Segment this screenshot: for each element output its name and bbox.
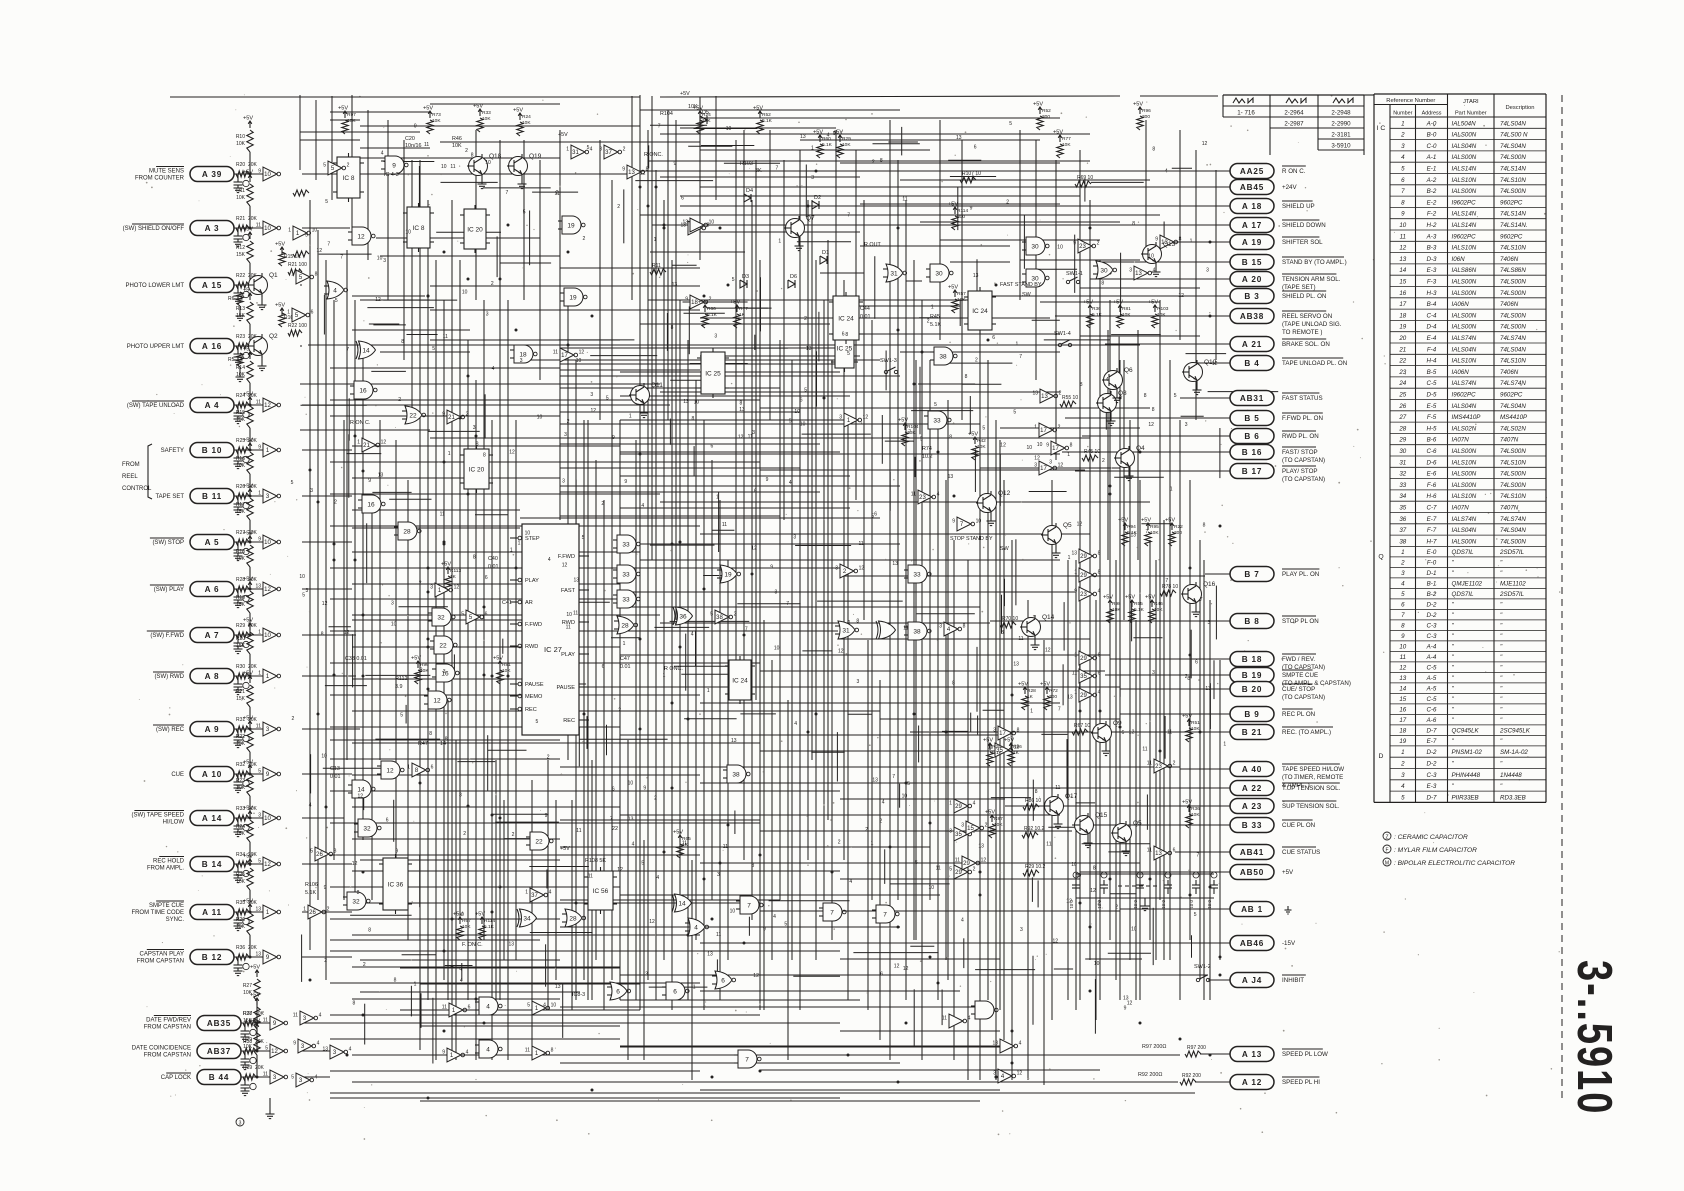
label B20 — [1282, 684, 1325, 701]
wire — [352, 1054, 1180, 1056]
gate 28 — [562, 909, 586, 927]
wire — [647, 130, 649, 980]
gate 9 — [381, 156, 408, 174]
wire — [302, 173, 630, 175]
junction — [507, 675, 510, 678]
connector B5 — [1230, 411, 1274, 426]
svg-text:10: 10 — [264, 226, 271, 232]
gate 29 — [1071, 549, 1100, 563]
svg-text:9602PC: 9602PC — [1500, 199, 1523, 206]
svg-text:23: 23 — [1155, 764, 1162, 770]
gate 30 — [1022, 237, 1049, 255]
svg-text:29: 29 — [1080, 573, 1087, 579]
svg-text:RD3.3EB: RD3.3EB — [1500, 794, 1526, 801]
scan noise — [139, 94, 1561, 1139]
ground — [795, 246, 804, 251]
junction — [929, 822, 932, 825]
svg-text:4: 4 — [694, 925, 698, 932]
svg-text:5: 5 — [915, 860, 918, 866]
wire — [620, 1045, 1000, 1047]
svg-text:+24V: +24V — [1282, 184, 1297, 191]
svg-text:7: 7 — [747, 903, 751, 910]
svg-text:3: 3 — [1206, 268, 1209, 274]
svg-text:R20: R20 — [236, 636, 245, 642]
svg-text:19: 19 — [1399, 738, 1406, 745]
svg-text:30: 30 — [1031, 244, 1039, 251]
wire — [389, 498, 431, 500]
gate 1 — [525, 1046, 554, 1060]
svg-text:4: 4 — [773, 914, 776, 920]
wire — [234, 541, 263, 543]
junction — [663, 227, 666, 230]
svg-text:10: 10 — [1037, 442, 1043, 448]
svg-text:1: 1 — [693, 984, 696, 990]
svg-text:15K: 15K — [236, 602, 246, 608]
svg-text:F.FWD: F.FWD — [525, 622, 542, 628]
junction — [575, 902, 578, 905]
svg-text:1: 1 — [629, 413, 632, 419]
svg-text:A-5: A-5 — [1426, 685, 1437, 692]
svg-text:+5V: +5V — [968, 432, 978, 438]
svg-text:21: 21 — [363, 443, 370, 449]
svg-text:32: 32 — [1399, 471, 1406, 478]
wire — [436, 231, 501, 233]
svg-text:0.01: 0.01 — [1161, 900, 1166, 909]
junction — [591, 1089, 594, 1092]
svg-text:R18: R18 — [236, 549, 245, 555]
gate 28 — [394, 522, 421, 540]
wire — [348, 398, 350, 440]
wire — [969, 396, 971, 434]
svg-text:74LS14N: 74LS14N — [1500, 166, 1526, 173]
power +5V — [250, 1019, 260, 1032]
gate 37 — [599, 145, 625, 159]
connector A11 — [190, 905, 234, 920]
junction — [703, 588, 706, 591]
svg-text:Address: Address — [1422, 111, 1442, 117]
svg-text:D-7: D-7 — [1427, 794, 1438, 801]
svg-text:6: 6 — [1098, 653, 1101, 659]
wire — [885, 440, 914, 442]
svg-text:IAL504N: IAL504N — [1452, 120, 1477, 127]
gate 30 — [1022, 269, 1049, 287]
svg-text:10K: 10K — [702, 118, 711, 124]
wire — [495, 760, 497, 1010]
connector AB50 — [1230, 865, 1274, 880]
wire — [769, 130, 771, 420]
resistor R70 — [1000, 616, 1018, 628]
svg-text:1K: 1K — [739, 312, 746, 318]
wire — [855, 150, 857, 500]
wire — [330, 694, 700, 696]
power +5V — [243, 716, 253, 729]
junction — [362, 614, 365, 617]
wire — [700, 782, 1000, 784]
wire — [244, 1077, 246, 1082]
svg-text:10: 10 — [1094, 961, 1100, 967]
wire — [371, 370, 406, 372]
connector A22 — [1230, 781, 1274, 796]
svg-text:10: 10 — [537, 415, 543, 421]
svg-text:10K: 10K — [502, 668, 511, 674]
svg-text:4: 4 — [1019, 1041, 1022, 1047]
svg-text:I06N: I06N — [1452, 256, 1466, 263]
svg-text:B 10: B 10 — [202, 446, 223, 455]
wire — [1118, 337, 1120, 380]
wire — [963, 938, 965, 968]
svg-text:2: 2 — [985, 823, 988, 829]
wire — [459, 260, 461, 920]
wire — [360, 147, 430, 149]
svg-text:REC: REC — [563, 718, 575, 724]
junction — [1149, 878, 1152, 881]
junction — [937, 451, 940, 454]
svg-text:FAST STAND BY: FAST STAND BY — [1000, 282, 1042, 288]
wire — [234, 449, 263, 451]
wire — [793, 975, 840, 977]
junction — [443, 541, 446, 544]
gate 2 — [835, 564, 864, 578]
wire — [407, 334, 438, 336]
svg-text:(SW) TAPE SPEED: (SW) TAPE SPEED — [132, 813, 185, 819]
svg-text:11: 11 — [443, 334, 448, 340]
svg-text:R69 10: R69 10 — [1077, 175, 1093, 181]
svg-text:5: 5 — [527, 1003, 530, 1009]
svg-text:R17: R17 — [236, 502, 245, 508]
svg-text:R86 10: R86 10 — [1025, 798, 1041, 804]
svg-text:CUE STATUS: CUE STATUS — [1282, 849, 1320, 856]
svg-text:11: 11 — [1400, 233, 1406, 240]
gate 14 — [348, 780, 375, 798]
gate 4 — [475, 997, 502, 1015]
svg-text:9: 9 — [770, 565, 773, 571]
svg-text:: BIPOLAR ELECTROLITIC CAPAC: : BIPOLAR ELECTROLITIC CAPACITOR — [1394, 860, 1515, 867]
svg-text:7: 7 — [776, 166, 779, 172]
wire — [360, 299, 430, 301]
wire — [261, 295, 263, 305]
svg-text:R52: R52 — [1042, 108, 1051, 114]
wire — [520, 359, 880, 361]
wire — [587, 420, 589, 1000]
svg-text:2: 2 — [556, 190, 559, 196]
label AA25 — [1282, 166, 1306, 175]
connector B14 — [190, 857, 234, 872]
svg-text:13: 13 — [1071, 551, 1077, 557]
flip-flop IC 8 — [403, 203, 434, 252]
svg-text:6: 6 — [874, 512, 877, 518]
svg-text:13: 13 — [973, 273, 979, 279]
wire — [1141, 523, 1172, 525]
svg-text:R23: R23 — [236, 778, 245, 784]
svg-text:1K: 1K — [1027, 694, 1034, 700]
junction — [467, 805, 470, 808]
wire — [800, 139, 1040, 141]
wire — [674, 665, 740, 667]
svg-text:8: 8 — [1093, 866, 1096, 872]
junction — [703, 295, 706, 298]
wire — [364, 1004, 366, 1045]
svg-text:9: 9 — [952, 519, 955, 525]
svg-text:74LS00N: 74LS00N — [1500, 471, 1526, 478]
svg-text:+5V: +5V — [441, 562, 451, 568]
wire — [302, 1022, 352, 1024]
label AJ4 — [1282, 975, 1306, 984]
svg-text:D6: D6 — [790, 274, 797, 280]
svg-text:R81: R81 — [1122, 306, 1131, 312]
gate nand — [971, 1001, 998, 1019]
resistor — [236, 273, 258, 288]
svg-text:IA06N: IA06N — [1452, 301, 1470, 308]
svg-text:Q8: Q8 — [1118, 390, 1127, 397]
wire — [575, 360, 577, 1000]
resistor pull-up — [1103, 595, 1121, 624]
wire — [234, 284, 263, 286]
resistor — [236, 130, 253, 176]
wire — [261, 356, 263, 366]
svg-text:7: 7 — [1197, 852, 1200, 858]
junction — [491, 814, 494, 817]
svg-text:4: 4 — [691, 632, 694, 638]
svg-text:10: 10 — [405, 229, 411, 235]
wire — [530, 932, 593, 934]
wire — [915, 697, 917, 734]
wire — [737, 347, 788, 349]
wire — [523, 140, 525, 300]
label AB38 — [1282, 311, 1342, 336]
wire — [330, 1092, 1195, 1094]
svg-text:R15: R15 — [236, 410, 245, 416]
svg-text:12: 12 — [264, 587, 271, 593]
wire — [352, 295, 425, 297]
wire — [1099, 260, 1101, 1000]
wire — [595, 460, 597, 960]
svg-text:B-2: B-2 — [1427, 188, 1437, 195]
svg-text:7: 7 — [658, 124, 661, 130]
svg-text:9: 9 — [612, 435, 615, 441]
wire — [559, 130, 561, 300]
svg-text:8: 8 — [1080, 382, 1083, 388]
svg-text:5: 5 — [536, 719, 539, 725]
wire — [1108, 952, 1151, 954]
gate 4 — [993, 1069, 1022, 1083]
svg-text:12: 12 — [1399, 664, 1406, 671]
wire — [330, 119, 360, 121]
gate 23 — [1074, 587, 1100, 601]
wire — [483, 300, 485, 940]
svg-text:M: M — [1385, 861, 1389, 867]
svg-text:B 5: B 5 — [1244, 414, 1259, 423]
wire — [660, 622, 990, 624]
wire — [395, 440, 397, 860]
svg-text:5: 5 — [461, 612, 464, 618]
svg-text:5: 5 — [1194, 912, 1197, 918]
svg-text:A 4: A 4 — [205, 401, 220, 410]
svg-text:IC 27: IC 27 — [544, 645, 562, 654]
wire — [302, 817, 344, 819]
wire — [1152, 908, 1154, 965]
svg-text:-15V: -15V — [1282, 940, 1296, 947]
wire — [684, 718, 737, 720]
svg-text:2-2964: 2-2964 — [1284, 110, 1304, 117]
svg-text:4: 4 — [794, 721, 797, 727]
svg-text:A 13: A 13 — [1242, 1050, 1262, 1059]
svg-text:29: 29 — [963, 861, 970, 867]
junction — [913, 713, 916, 716]
junction — [847, 1054, 850, 1057]
wire — [360, 157, 560, 159]
svg-text:1- 716: 1- 716 — [1237, 110, 1255, 117]
capacitor — [234, 179, 250, 193]
wire — [703, 420, 705, 1010]
svg-text:R19: R19 — [236, 595, 245, 601]
svg-text:A-1: A-1 — [1426, 154, 1437, 161]
svg-text:8: 8 — [334, 849, 337, 855]
svg-text:2: 2 — [1400, 559, 1405, 566]
wire — [885, 351, 887, 391]
wire — [330, 726, 620, 728]
svg-text:R ONC.: R ONC. — [644, 152, 663, 158]
svg-text:9: 9 — [258, 537, 261, 543]
connector A4 — [190, 398, 234, 413]
svg-text:74LS14N.: 74LS14N. — [1500, 222, 1528, 229]
svg-text:R56: R56 — [1013, 744, 1022, 750]
svg-text:8: 8 — [845, 332, 848, 338]
svg-text:+5V: +5V — [243, 671, 253, 677]
svg-text:R67 10: R67 10 — [1074, 723, 1090, 729]
svg-text:2: 2 — [973, 867, 976, 873]
gate 35 — [949, 827, 975, 841]
wire — [1057, 818, 1059, 824]
gate 13 — [1032, 389, 1061, 403]
power +5V — [243, 438, 253, 451]
svg-text:9: 9 — [368, 478, 371, 484]
wire — [1011, 540, 1013, 1080]
svg-text:5: 5 — [335, 298, 338, 304]
junction — [1219, 525, 1222, 528]
svg-text:8: 8 — [1101, 280, 1104, 286]
connector B12 — [190, 950, 234, 965]
svg-text:10: 10 — [1027, 445, 1033, 451]
wire — [560, 491, 820, 493]
svg-text:5.1K: 5.1K — [930, 322, 941, 328]
wire — [529, 211, 531, 266]
wire — [759, 260, 761, 1010]
svg-text:+5V: +5V — [730, 300, 740, 306]
junction — [354, 559, 357, 562]
wire — [1108, 851, 1129, 853]
svg-text:C-3: C-3 — [1427, 772, 1438, 779]
junction — [443, 251, 446, 254]
svg-text:74LS04N: 74LS04N — [1500, 346, 1526, 353]
junction — [515, 567, 518, 570]
resistor pull-up — [813, 130, 833, 159]
gate 1 — [288, 226, 317, 240]
wire — [375, 738, 440, 740]
svg-text:5: 5 — [710, 612, 713, 618]
wire — [620, 395, 850, 397]
wire — [418, 166, 420, 221]
svg-text:11: 11 — [1072, 671, 1077, 677]
svg-text:3: 3 — [391, 601, 394, 607]
wire — [620, 419, 850, 421]
svg-text:C20: C20 — [405, 136, 415, 142]
wire — [1195, 150, 1197, 420]
wire — [913, 260, 915, 940]
label A17 — [1282, 220, 1326, 229]
resistor — [236, 162, 258, 177]
svg-text:SW: SW — [1022, 292, 1032, 298]
wire — [547, 760, 549, 1010]
svg-text:13: 13 — [628, 170, 635, 176]
svg-text:19: 19 — [567, 223, 575, 230]
gate 13 — [1155, 235, 1181, 249]
svg-text:F-4: F-4 — [1427, 346, 1437, 353]
svg-text:5: 5 — [291, 480, 294, 486]
junction — [905, 1022, 908, 1025]
label A39 — [135, 167, 185, 182]
svg-text:+5V: +5V — [243, 760, 253, 766]
wire — [475, 380, 477, 1060]
svg-text:1: 1 — [288, 228, 291, 234]
svg-text:1: 1 — [1170, 487, 1173, 493]
diode D3 — [740, 274, 749, 288]
label B8 — [1282, 616, 1319, 625]
resistor — [236, 820, 253, 866]
svg-text:17: 17 — [1040, 466, 1047, 472]
junction — [807, 731, 810, 734]
wire — [475, 130, 477, 300]
gate 38 — [710, 610, 736, 624]
svg-text:3: 3 — [383, 258, 386, 264]
svg-text:32: 32 — [363, 826, 371, 833]
svg-text:C-7: C-7 — [1427, 505, 1438, 512]
wire — [700, 205, 1230, 207]
svg-text:0.01: 0.01 — [1133, 900, 1138, 909]
wire — [237, 774, 239, 779]
svg-text:9: 9 — [1074, 589, 1077, 595]
svg-text:FROM COUNTER: FROM COUNTER — [135, 176, 185, 182]
svg-text:(SW) SHIELD ON/OFF: (SW) SHIELD ON/OFF — [123, 226, 185, 232]
svg-text:36: 36 — [1399, 516, 1406, 523]
wire — [302, 449, 352, 451]
resistor pull-up — [730, 300, 748, 329]
wire — [580, 738, 668, 740]
wire — [591, 760, 593, 1000]
svg-text:A 39: A 39 — [202, 170, 222, 179]
svg-text:2: 2 — [363, 962, 366, 968]
svg-text:IC 24: IC 24 — [838, 316, 854, 323]
svg-text:4: 4 — [548, 557, 551, 563]
wire — [237, 864, 239, 869]
connector A19 — [1230, 235, 1274, 250]
svg-text:8: 8 — [321, 632, 324, 638]
wire — [546, 683, 587, 685]
resistor — [236, 361, 253, 407]
wire — [1110, 893, 1136, 895]
resistor R97 — [1185, 1045, 1206, 1057]
svg-text:PLAY: PLAY — [525, 578, 539, 584]
junction — [467, 493, 470, 496]
wire — [1001, 595, 1003, 634]
wire — [330, 886, 620, 888]
ground — [518, 184, 527, 189]
junction — [687, 934, 690, 937]
svg-text:15K: 15K — [236, 696, 246, 702]
wire — [961, 140, 963, 420]
svg-text:Z: Z — [1385, 835, 1388, 841]
svg-text:6: 6 — [711, 443, 714, 449]
wire — [694, 128, 758, 130]
